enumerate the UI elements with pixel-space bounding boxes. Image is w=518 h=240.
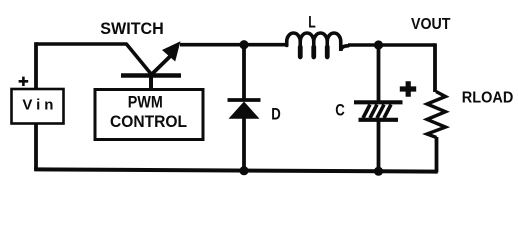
block U1 PWM CONTROL box [95, 90, 203, 140]
wire: capacitor vertical top [377, 44, 381, 102]
svg-text:PWM: PWM [128, 94, 163, 112]
wire: diode vertical bottom [242, 118, 246, 171]
node: junction dot at diode top [239, 40, 248, 49]
wire: right vertical above resistor [433, 43, 437, 92]
svg-text:D: D [271, 106, 281, 124]
diode D cathode bar [228, 98, 261, 102]
switch Q1: left diagonal [126, 44, 152, 75]
wire: right vertical below resistor [435, 137, 439, 172]
inductor coil inner tails (thicker merged legs) [300, 47, 327, 57]
wire: top rail left segment (Vin top to switch) [36, 42, 127, 46]
wire: top rail inductor to right corner [348, 43, 435, 47]
diode D triangle [229, 102, 260, 119]
svg-text:RLOAD: RLOAD [462, 90, 514, 107]
svg-text:SWITCH: SWITCH [100, 20, 164, 38]
wire: top rail switch to inductor [180, 43, 287, 47]
wire: capacitor vertical bottom [377, 120, 381, 171]
wire: gate stub from bar to PWM box [149, 76, 153, 90]
resistor RLOAD zigzag [427, 92, 446, 138]
source Vin box [12, 89, 64, 124]
capacitor C top plate [354, 100, 403, 104]
polarity + of Vin [19, 77, 29, 86]
switch Q1: bar (plate) [121, 73, 181, 77]
inductor L coil [287, 33, 348, 58]
svg-text:C: C [335, 102, 345, 120]
wire: left vertical above Vin box [34, 42, 38, 89]
wire: left vertical below Vin box [34, 123, 38, 171]
switch Q1: right diagonal toward arrow [152, 55, 173, 75]
node: junction dot at capacitor top [374, 40, 383, 49]
svg-text:CONTROL: CONTROL [110, 113, 187, 131]
capacitor C hatch strokes [363, 105, 391, 119]
polarity + of capacitor [400, 81, 416, 97]
node: junction dot at capacitor bottom [374, 167, 383, 176]
svg-text:L: L [308, 12, 316, 31]
svg-text:Vin: Vin [22, 97, 53, 114]
wire: bottom rail [34, 169, 438, 171]
switch Q1: arrowhead [162, 41, 181, 61]
node: junction dot at diode bottom [239, 166, 248, 175]
wire: diode vertical top [242, 44, 246, 100]
capacitor C hatched bottom plate [359, 118, 399, 122]
svg-text:VOUT: VOUT [411, 16, 451, 33]
